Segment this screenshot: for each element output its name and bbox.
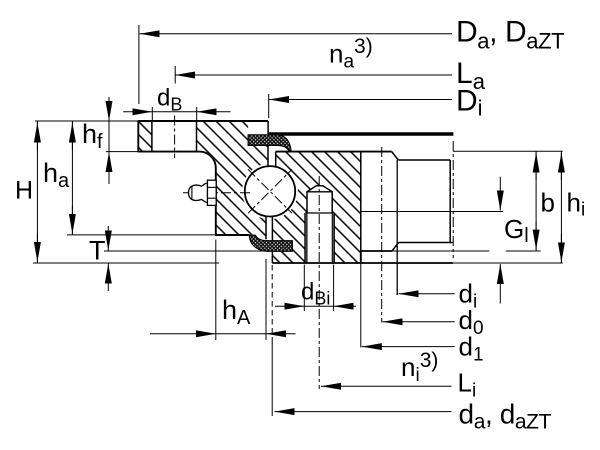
inner ring outlines — [276, 151, 392, 153]
svg-text:H: H — [15, 177, 33, 205]
inner ring section (hatched) — [272, 152, 360, 263]
right top face ext — [453, 150, 563, 152]
outer ring outlines — [138, 120, 268, 122]
dimension d_B — [151, 107, 153, 120]
dimension h_i — [560, 152, 562, 264]
dimension G_l — [499, 177, 501, 211]
bottom face long line — [272, 262, 453, 264]
dimension b (gear width) — [535, 152, 537, 251]
svg-text:b: b — [541, 188, 555, 218]
flange hole centerline — [174, 116, 176, 159]
inner ring threaded hole d_Bi with drill point — [305, 186, 334, 263]
outer ring section (hatched) — [138, 121, 268, 239]
dimension D_a, D_aZT — [138, 25, 140, 104]
channel walls above ball — [267, 146, 269, 167]
raceway centerline — [183, 192, 251, 194]
ha bottom ext — [67, 234, 216, 236]
dimension d_1 — [360, 263, 362, 348]
dimension d_a, d_aZT — [271, 256, 273, 338]
dimension L_a — [174, 66, 176, 84]
bore centerline — [452, 141, 454, 258]
raceway cut around ball — [242, 163, 298, 219]
dBi hole centerline — [318, 176, 320, 389]
tooth zone outlines — [392, 152, 399, 160]
bottom seal — [249, 235, 292, 251]
dimension H — [36, 122, 38, 264]
top face ext left — [35, 120, 138, 122]
flange bolt hole (white) — [152, 122, 197, 151]
gear pitch centerline — [381, 147, 383, 323]
dimension h_a — [71, 122, 73, 235]
dimension L_i — [321, 385, 452, 387]
flange hole edges — [151, 121, 153, 152]
dimension d_0 — [383, 321, 455, 323]
dimension T — [107, 226, 109, 251]
flange underside ext — [106, 151, 139, 153]
top seal — [248, 135, 291, 151]
dimension h_f — [108, 122, 110, 152]
G_l reference line — [361, 211, 503, 213]
thick seal strip — [268, 132, 454, 135]
T top line — [104, 250, 272, 252]
ball (rolling element) — [245, 166, 295, 216]
dimension h_A — [215, 240, 217, 341]
dimension d_i — [399, 293, 455, 295]
dimension D_i — [268, 94, 270, 118]
dimension d_Bi — [303, 265, 305, 312]
svg-text:T: T — [89, 236, 106, 266]
channel walls below ball — [265, 215, 267, 239]
grease nipple — [207, 180, 216, 205]
